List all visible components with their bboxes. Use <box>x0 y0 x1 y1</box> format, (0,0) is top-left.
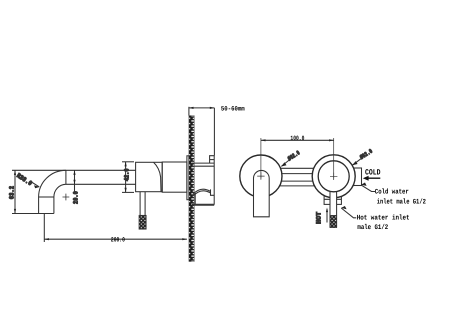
svg-text:63.2: 63.2 <box>9 186 16 199</box>
svg-text:100.0: 100.0 <box>290 135 304 142</box>
dim 200.0 extension <box>43 214 45 243</box>
in-wall body top flange lines <box>192 162 214 164</box>
valve hub rectangle <box>136 162 163 191</box>
right centerline <box>333 138 335 179</box>
svg-text:42.0: 42.0 <box>123 168 130 181</box>
in-wall top step <box>210 156 215 163</box>
wall cross-section hatch <box>189 116 194 262</box>
dim 50-60mm extension left <box>188 107 190 116</box>
spout bend joint vertical <box>65 170 67 184</box>
trim plate at wall <box>187 156 189 200</box>
spout outlet right wall <box>53 197 55 214</box>
dim R38.0 leader <box>32 182 40 187</box>
in-wall body bottom lines <box>194 193 196 204</box>
in-wall bottom step <box>211 189 215 195</box>
svg-text:male G1/2: male G1/2 <box>357 223 388 232</box>
front view <box>240 135 426 232</box>
left centerline <box>260 138 262 179</box>
connecting pipe lines <box>280 167 316 169</box>
spout outlet joint line <box>39 196 54 198</box>
svg-text:Ø62.0: Ø62.0 <box>359 148 374 161</box>
dim 50-60mm line <box>189 107 215 109</box>
dim 50-60mm extension right <box>213 108 215 156</box>
in-wall dome arcs <box>193 189 211 194</box>
escutcheon rectangle <box>162 162 187 192</box>
svg-text:R38.0: R38.0 <box>15 172 33 187</box>
dim 20.0 line <box>74 170 76 191</box>
label phi62.0 left leader <box>281 159 290 166</box>
spout bend inner arc <box>54 184 66 197</box>
spout tube bottom line <box>66 183 136 185</box>
hot tube knurled end <box>330 215 337 227</box>
in-wall body right edge <box>213 156 215 205</box>
HOT flow arrow <box>326 209 328 223</box>
lever handle front view <box>254 170 270 216</box>
svg-text:COLD: COLD <box>365 168 381 177</box>
bottom hot port flange <box>324 194 341 205</box>
svg-text:HOT: HOT <box>316 212 323 224</box>
right escutcheon outer circle <box>312 155 355 198</box>
spout outlet left wall <box>38 197 40 214</box>
dim 100.0 line <box>261 139 334 141</box>
lever knurled knob side view <box>139 215 146 229</box>
spout bend outer arc <box>39 170 66 197</box>
hot inlet tube <box>330 191 337 228</box>
dim 63.2 line <box>14 170 16 213</box>
svg-text:inlet male G1/2: inlet male G1/2 <box>377 198 426 207</box>
COLD flow arrow <box>363 176 381 181</box>
inner trim circle <box>318 161 349 192</box>
label phi62.0 right leader <box>352 158 362 165</box>
lever rod side view <box>139 192 141 216</box>
svg-text:Cold water: Cold water <box>375 188 409 197</box>
cold leader <box>361 185 375 192</box>
dim 200.0 line <box>44 238 187 240</box>
svg-text:200.0: 200.0 <box>111 237 125 244</box>
dim 42.0 line <box>125 162 127 193</box>
cold inlet port <box>352 168 362 186</box>
bend center mark <box>63 194 70 201</box>
side view: spout tube top line + 63.2 top extension <box>9 105 245 261</box>
dim 42.0 extension ticks <box>122 161 134 163</box>
spout outlet bottom + 63.2 bottom extension <box>12 213 54 215</box>
left escutcheon circle <box>240 155 282 197</box>
hot leader <box>341 208 356 218</box>
right center mark <box>330 173 337 180</box>
svg-text:50-60mm: 50-60mm <box>221 105 245 112</box>
left center mark <box>257 172 264 179</box>
svg-text:20.0: 20.0 <box>72 191 79 204</box>
hub dome silhouette curve <box>154 162 162 191</box>
svg-text:Hot water inlet: Hot water inlet <box>357 214 410 223</box>
svg-text:Ø62.0: Ø62.0 <box>287 149 302 162</box>
